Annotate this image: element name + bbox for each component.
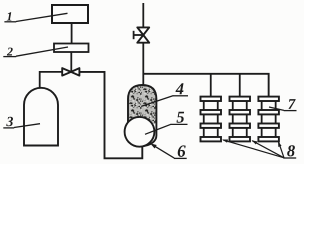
- valve V1 (bowtie on horizontal pipe): [62, 68, 79, 76]
- vessel outline (component 6 shell): [128, 85, 156, 146]
- label 6 leader shelf and arrow: [152, 145, 187, 159]
- drop wire to stack 2: [239, 74, 241, 97]
- block 2 (thin rectangle component 2): [54, 44, 89, 53]
- gas cylinder 3: [24, 88, 58, 146]
- label 6 text: [178, 145, 186, 157]
- label 8 arrow to stack 1: [222, 140, 284, 158]
- label 8 text: [287, 145, 295, 156]
- ball 5 (circle in vessel): [125, 117, 155, 147]
- cassette stack 1: [201, 97, 222, 142]
- vent line above valve V2: [142, 3, 144, 28]
- label 2 leader and shelf: [3, 47, 68, 57]
- label 3 leader and shelf: [3, 124, 40, 128]
- label 1 leader and shelf: [4, 13, 67, 21]
- wire valve V2 to vessel top: [142, 43, 144, 86]
- label 3 text: [6, 117, 13, 126]
- label 2 text: [7, 48, 13, 56]
- label 4 text: [176, 83, 184, 94]
- pipe from cylinder 3 neck to valve V1: [40, 72, 63, 89]
- label 8 shelf: [283, 157, 296, 159]
- vessel 4 interior gas stipple: [128, 85, 157, 124]
- label 4 leader and shelf: [142, 96, 189, 107]
- cassette stack 2: [230, 97, 251, 142]
- manifold pipe to cassette stacks: [143, 74, 268, 97]
- label 8 arrow to stack 3: [278, 141, 284, 158]
- label 1 text: [7, 12, 12, 20]
- wire block2 to valve V1: [70, 52, 72, 72]
- drop wire to stack 1: [210, 74, 212, 97]
- label 7 leader and shelf: [269, 107, 297, 111]
- valve V2 (vertical bowtie with stem): [137, 27, 149, 42]
- pipe from valve V1 to vessel bottom: [79, 72, 142, 158]
- cassette stack 3: [258, 97, 279, 142]
- label 5 text: [177, 112, 185, 123]
- label 5 leader and shelf: [145, 124, 188, 134]
- valve V2 stem: [134, 31, 144, 39]
- label 8 arrow to stack 2: [252, 140, 285, 158]
- block 1 (rectangle component 1): [52, 5, 88, 23]
- label 7 text: [288, 99, 295, 109]
- label 6 arrowhead: [150, 143, 157, 148]
- wire block1 to block2: [71, 23, 73, 44]
